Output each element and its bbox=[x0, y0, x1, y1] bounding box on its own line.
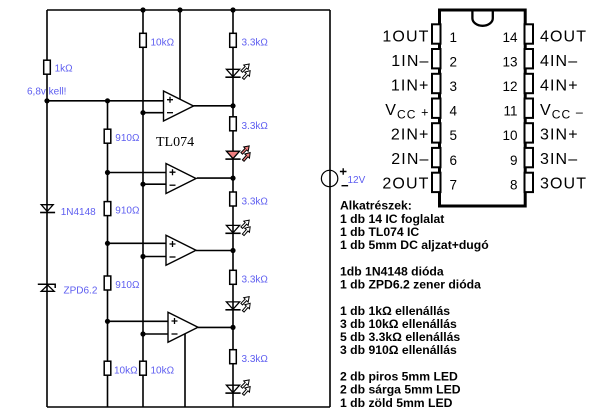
svg-text:8: 8 bbox=[510, 177, 518, 192]
svg-text:1 db ZPD6.2 zener dióda: 1 db ZPD6.2 zener dióda bbox=[340, 278, 481, 292]
wire op-amp2 - input bbox=[143, 183, 166, 185]
svg-text:6: 6 bbox=[450, 153, 458, 168]
svg-text:3: 3 bbox=[450, 79, 458, 94]
node divider tap 3 bbox=[105, 319, 110, 324]
svg-text:2: 2 bbox=[450, 55, 458, 70]
resistor 10k ohm bottom right bbox=[140, 361, 175, 376]
op-amp U1A bbox=[164, 91, 194, 121]
svg-text:3 db 10kΩ ellenállás: 3 db 10kΩ ellenállás bbox=[340, 317, 457, 331]
svg-text:5: 5 bbox=[450, 128, 458, 143]
resistor 3.3k ohm 4 bbox=[230, 270, 269, 285]
resistor 3.3k ohm 2 bbox=[230, 117, 269, 132]
node op-amp4 inverting input bbox=[140, 331, 145, 336]
svg-text:2 db sárga 5mm LED: 2 db sárga 5mm LED bbox=[340, 383, 461, 397]
wire top power rail bbox=[47, 9, 330, 11]
svg-text:3.3kΩ: 3.3kΩ bbox=[242, 37, 269, 48]
op-amp U1B bbox=[166, 164, 196, 194]
pin 5 box bbox=[432, 123, 441, 142]
resistor 910 ohm 2 bbox=[104, 202, 140, 217]
svg-text:3.3kΩ: 3.3kΩ bbox=[242, 197, 269, 208]
svg-text:3.3kΩ: 3.3kΩ bbox=[242, 275, 269, 286]
svg-text:11: 11 bbox=[503, 104, 517, 119]
svg-text:14: 14 bbox=[502, 30, 518, 45]
wire op-amp3 + input bbox=[108, 242, 167, 244]
wire op-amp2 + input bbox=[108, 172, 167, 174]
wire op-amp3 - input bbox=[143, 256, 166, 258]
svg-text:1 db 5mm DC aljzat+dugó: 1 db 5mm DC aljzat+dugó bbox=[340, 238, 489, 252]
svg-text:1 db zöld 5mm LED: 1 db zöld 5mm LED bbox=[340, 396, 453, 410]
wire left rail bbox=[46, 10, 48, 407]
wire bottom ground rail bbox=[47, 406, 330, 408]
node divider tap 1 bbox=[105, 170, 110, 175]
svg-text:ZPD6.2: ZPD6.2 bbox=[64, 286, 98, 297]
resistor 3.3k ohm 5 bbox=[230, 350, 269, 365]
wire op-amp4 V- supply bbox=[184, 334, 186, 407]
LED 5 bbox=[225, 378, 252, 397]
node op-amp3 inverting input bbox=[140, 254, 145, 259]
pin 8 box bbox=[525, 173, 534, 192]
wire op-amp1 V+ supply bbox=[179, 10, 181, 99]
resistor 910 ohm 3 bbox=[104, 276, 140, 291]
svg-text:10kΩ: 10kΩ bbox=[151, 365, 175, 376]
node top rail / LED column junction bbox=[230, 7, 235, 12]
pin 7 box bbox=[432, 173, 441, 192]
svg-text:13: 13 bbox=[502, 55, 517, 70]
node op-amp4 output / LED column bbox=[230, 325, 235, 330]
pin 6 box bbox=[432, 148, 441, 167]
svg-text:3IN–: 3IN– bbox=[540, 151, 578, 168]
svg-text:Alkatrészek:: Alkatrészek: bbox=[340, 199, 412, 213]
svg-text:1: 1 bbox=[450, 30, 458, 45]
node A zener reference bbox=[44, 98, 49, 103]
wire op-amp4 + input bbox=[108, 320, 169, 322]
pin 3 box bbox=[432, 74, 441, 93]
pin 13 box bbox=[525, 49, 534, 68]
svg-text:1IN+: 1IN+ bbox=[391, 78, 430, 95]
svg-text:4OUT: 4OUT bbox=[540, 28, 587, 45]
svg-text:4IN–: 4IN– bbox=[540, 53, 578, 70]
svg-text:3.3kΩ: 3.3kΩ bbox=[242, 121, 269, 132]
LED 2 red bbox=[225, 144, 252, 163]
pin 10 box bbox=[525, 123, 534, 142]
LED 4 bbox=[225, 294, 252, 313]
LED 3 bbox=[225, 218, 252, 237]
wire op-amp1 output bbox=[194, 105, 234, 107]
parts list (Alkatrészek) bbox=[340, 199, 489, 410]
svg-text:10kΩ: 10kΩ bbox=[151, 37, 175, 48]
resistor 910 ohm 1 bbox=[104, 129, 140, 144]
pin 1 box bbox=[432, 24, 441, 43]
wire op-amp1 - input bbox=[143, 112, 164, 114]
node op-amp2 output / LED column bbox=[230, 176, 235, 181]
node top rail / reference column junction bbox=[140, 7, 145, 12]
svg-text:3 db 910Ω ellenállás: 3 db 910Ω ellenállás bbox=[340, 343, 457, 357]
pin 11 box bbox=[525, 99, 534, 118]
resistor 10k ohm bottom left bbox=[104, 361, 138, 376]
node op-amp1 inverting input bbox=[140, 110, 145, 115]
svg-text:1IN–: 1IN– bbox=[391, 53, 429, 70]
svg-text:2IN–: 2IN– bbox=[391, 151, 429, 168]
svg-text:1OUT: 1OUT bbox=[382, 28, 429, 45]
diode 1N4148 bbox=[40, 205, 96, 218]
svg-text:9: 9 bbox=[510, 153, 518, 168]
zener diode ZPD6.2 bbox=[38, 284, 98, 296]
svg-text:4: 4 bbox=[450, 104, 458, 119]
node divider tap 2 bbox=[105, 241, 110, 246]
svg-text:1kΩ: 1kΩ bbox=[55, 64, 74, 75]
op-amp U1C bbox=[166, 235, 196, 265]
svg-text:2OUT: 2OUT bbox=[382, 176, 429, 193]
node op-amp3 output / LED column bbox=[230, 248, 235, 253]
svg-text:3IN+: 3IN+ bbox=[540, 127, 579, 144]
resistor 3.3k ohm 3 bbox=[230, 192, 269, 208]
wire LED column bbox=[232, 10, 234, 407]
svg-text:3.3kΩ: 3.3kΩ bbox=[242, 354, 269, 365]
voltage source 12V bbox=[321, 168, 365, 187]
pin 2 box bbox=[432, 49, 441, 68]
svg-text:3OUT: 3OUT bbox=[540, 176, 587, 193]
wire divider column bbox=[107, 101, 109, 407]
wire reference column bbox=[142, 10, 144, 407]
LED 1 bbox=[225, 62, 252, 81]
svg-text:12V: 12V bbox=[348, 175, 366, 186]
pin 12 box bbox=[525, 74, 534, 93]
node op-amp1 output / LED column bbox=[230, 103, 235, 108]
svg-text:1N4148: 1N4148 bbox=[61, 207, 96, 218]
svg-text:910Ω: 910Ω bbox=[115, 133, 140, 144]
wire node A to op-amp1 + input bbox=[47, 100, 164, 102]
svg-text:7: 7 bbox=[450, 177, 458, 192]
svg-text:910Ω: 910Ω bbox=[115, 280, 140, 291]
wire op-amp4 - input bbox=[143, 333, 168, 335]
IC body DIP-14 outline bbox=[440, 10, 526, 206]
svg-text:10kΩ: 10kΩ bbox=[114, 365, 138, 376]
op-amp U1D bbox=[168, 312, 198, 342]
svg-text:2 db piros 5mm LED: 2 db piros 5mm LED bbox=[340, 370, 458, 384]
svg-text:1 db 1kΩ ellenállás: 1 db 1kΩ ellenállás bbox=[340, 304, 450, 318]
node top rail / op-amp1 supply junction bbox=[177, 7, 182, 12]
svg-text:1 db 14 IC foglalat: 1 db 14 IC foglalat bbox=[340, 212, 444, 226]
wire op-amp4 output bbox=[198, 326, 233, 328]
resistor 1k ohm bbox=[44, 60, 73, 74]
node divider top junction bbox=[105, 98, 110, 103]
pin 14 box bbox=[525, 24, 534, 43]
resistor 10k ohm top bbox=[140, 33, 175, 48]
svg-text:10: 10 bbox=[502, 128, 517, 143]
pin 4 box bbox=[432, 99, 441, 118]
svg-text:4IN+: 4IN+ bbox=[540, 78, 579, 95]
wire op-amp3 output bbox=[196, 250, 233, 252]
svg-text:TL074: TL074 bbox=[156, 135, 194, 150]
pin 9 box bbox=[525, 148, 534, 167]
wire op-amp2 output bbox=[197, 177, 233, 179]
node op-amp2 inverting input bbox=[140, 182, 145, 187]
svg-text:5 db 3.3kΩ ellenállás: 5 db 3.3kΩ ellenállás bbox=[340, 330, 460, 344]
svg-text:12: 12 bbox=[502, 79, 517, 94]
svg-text:2IN+: 2IN+ bbox=[391, 127, 430, 144]
svg-text:6,8v kell!: 6,8v kell! bbox=[27, 87, 66, 98]
svg-text:1 db TL074 IC: 1 db TL074 IC bbox=[340, 225, 419, 239]
svg-text:1db 1N4148 dióda: 1db 1N4148 dióda bbox=[340, 264, 444, 278]
resistor 3.3k ohm 1 bbox=[230, 33, 269, 48]
svg-text:910Ω: 910Ω bbox=[115, 206, 140, 217]
wire 12V rail bbox=[329, 10, 331, 407]
